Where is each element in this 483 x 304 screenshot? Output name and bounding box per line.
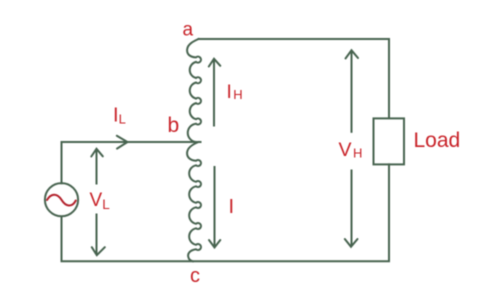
svg-text:I: I <box>229 196 235 218</box>
svg-text:b: b <box>168 114 180 137</box>
svg-text:VL: VL <box>90 190 111 212</box>
svg-text:Load: Load <box>414 129 461 152</box>
svg-text:IL: IL <box>113 105 126 127</box>
svg-text:VH: VH <box>339 139 363 161</box>
svg-text:a: a <box>183 20 194 41</box>
svg-text:IH: IH <box>227 82 243 103</box>
svg-text:c: c <box>190 265 200 287</box>
